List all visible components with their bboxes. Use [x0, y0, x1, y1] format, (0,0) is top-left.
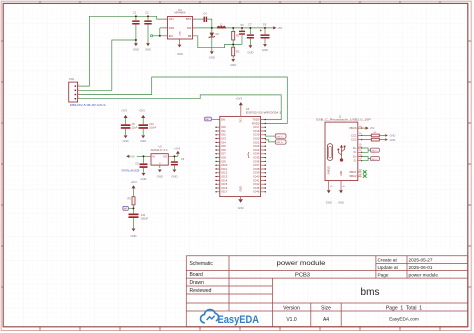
svg-text:EN: EN: [169, 34, 173, 38]
svg-text:Version: Version: [283, 305, 300, 311]
svg-text:3: 3: [78, 93, 79, 95]
svg-text:1: 1: [78, 84, 79, 86]
pins D+/D- pair 1 to net port: [353, 145, 379, 154]
svg-text:A5: A5: [359, 132, 361, 135]
svg-text:SBU2: SBU2: [349, 174, 357, 178]
net port EN at U3: [205, 117, 217, 121]
svg-text:GND: GND: [177, 52, 183, 56]
resistor R2 (feedback bottom): [232, 47, 240, 58]
svg-text:IO17: IO17: [221, 190, 228, 194]
svg-text:DB124V-5.08-4P-GN-S: DB124V-5.08-4P-GN-S: [70, 104, 106, 107]
svg-text:100nF: 100nF: [141, 218, 149, 221]
svg-text:A6: A6: [359, 145, 361, 148]
svg-text:+3V3: +3V3: [138, 109, 145, 113]
svg-text:Size: Size: [321, 305, 331, 311]
svg-text:A4: A4: [323, 317, 329, 323]
wire USB_D- to net port: [265, 135, 275, 137]
SCHEMATIC : power input section: [69, 9, 288, 124]
wire SW node: [197, 27, 273, 29]
svg-text:VIN: VIN: [169, 17, 174, 21]
svg-text:DIM: DIM: [169, 26, 175, 30]
svg-text:EasyEDA: EasyEDA: [218, 314, 260, 326]
USB-C plug glyph: [327, 144, 332, 161]
ground of C3: [171, 170, 177, 179]
wire CN1.1 to VIN rail: [80, 16, 162, 86]
power flag +3V3 at U2 output: [174, 147, 181, 157]
svg-text:A4: A4: [359, 125, 361, 128]
wire CN1.2 to GND of C1: [80, 40, 136, 90]
pin SHIELD to ground: [326, 166, 333, 205]
net port EN (RC node): [123, 206, 135, 210]
svg-text:Page 1 Total 1: Page 1 Total 1: [386, 305, 422, 311]
svg-text:GND: GND: [157, 175, 163, 179]
diode D1 (zener): [209, 29, 220, 52]
capacitor C11: [129, 214, 149, 229]
svg-text:3V3: 3V3: [241, 118, 243, 123]
svg-text:BST: BST: [186, 17, 192, 21]
pin CC1 with resistor R4: [351, 132, 396, 137]
ground of U3: [238, 186, 244, 210]
svg-text:GND: GND: [179, 31, 181, 36]
pins D+/D- pair 2 to net port: [353, 154, 379, 162]
capacitor C7 (output): [247, 24, 254, 45]
net port USB_D+: [275, 140, 286, 144]
capacitor C1: [132, 11, 139, 43]
svg-text:VBUS: VBUS: [349, 126, 357, 130]
ground of C2: [145, 43, 151, 51]
svg-text:B7: B7: [359, 159, 361, 161]
svg-text:+5V: +5V: [130, 155, 135, 159]
svg-text:GND: GND: [341, 170, 343, 175]
USB trident logo: [337, 145, 345, 162]
svg-text:Drawn: Drawn: [190, 280, 205, 286]
connector CN1: [69, 78, 106, 107]
net port USB_D-: [275, 134, 286, 138]
svg-text:USB_C_Receptacle_USB2.0_16P: USB_C_Receptacle_USB2.0_16P: [316, 119, 371, 122]
module U3 ESP32-S3-WROOM-1: [220, 108, 282, 196]
ground of R2: [230, 59, 236, 67]
svg-text:USB_D-: USB_D-: [371, 159, 378, 161]
regulator U2 AMS1117-3.3: [148, 146, 172, 168]
svg-text:4: 4: [78, 97, 79, 99]
junction dots: [143, 155, 145, 157]
wire DIM-EN tie: [160, 28, 163, 36]
svg-text:2025-05-27: 2025-05-27: [409, 258, 433, 263]
svg-text:ESP32-S3-WROOM-1: ESP32-S3-WROOM-1: [246, 112, 282, 115]
ground of C11: [131, 229, 137, 239]
ground of C10: [140, 135, 146, 142]
svg-text:100nF: 100nF: [149, 127, 157, 130]
svg-text:22uF: 22uF: [132, 127, 138, 130]
svg-text:power module: power module: [277, 261, 327, 267]
SCHEMATIC : ESP32 module section: [205, 97, 287, 210]
resistor R1 (feedback top): [232, 28, 240, 47]
svg-text:MP9486A: MP9486A: [175, 12, 186, 15]
svg-text:+3V3: +3V3: [236, 97, 243, 101]
junction dots on VIN rail: [135, 15, 137, 17]
SCHEMATIC : 3V3 regulator section: [121, 109, 185, 239]
svg-text:A1: A1: [343, 185, 345, 188]
pin GND to ground: [338, 170, 345, 204]
svg-text:GND: GND: [238, 206, 244, 210]
svg-text:GND: GND: [230, 63, 236, 67]
net stub EN (to IC1): [151, 35, 163, 37]
svg-text:2: 2: [78, 89, 79, 91]
svg-text:A7: A7: [359, 149, 361, 152]
svg-text:GND: GND: [326, 200, 332, 204]
svg-text:GND: GND: [338, 200, 344, 204]
svg-text:bms: bms: [361, 287, 380, 298]
power flag +3V3 at U3: [236, 97, 243, 123]
pins SBU1/SBU2 no-connect: [349, 169, 366, 178]
svg-text:D-: D-: [354, 159, 357, 163]
wire FB feedback: [197, 36, 242, 48]
U3 right pins: [247, 118, 266, 194]
wire USB_D+ to net port: [265, 140, 275, 142]
svg-text:GND: GND: [209, 55, 215, 59]
svg-text:Board: Board: [190, 272, 204, 278]
svg-text:V1.0: V1.0: [286, 317, 297, 323]
ground of D1: [209, 51, 215, 59]
wire CN1.4 to ESP32 TXD0 (inner loop): [80, 95, 281, 120]
ground of U2: [157, 170, 163, 179]
svg-text:USB_D-: USB_D-: [276, 136, 283, 138]
svg-text:+5V: +5V: [277, 26, 282, 30]
capacitor C6 (feedforward): [239, 24, 245, 44]
svg-text:GND: GND: [131, 234, 137, 238]
wire CN1.3 to ESP32 RXD0 (outer loop): [80, 77, 287, 123]
ground of C1: [133, 43, 139, 51]
inductor L1: [217, 23, 225, 28]
svg-text:GND: GND: [140, 139, 146, 143]
capacitor C5 tantalum input: [121, 156, 147, 172]
capacitor C3 output: [171, 156, 185, 169]
svg-text:B8: B8: [359, 174, 361, 176]
net flag +5V output: [273, 26, 282, 30]
U3 left pins: [215, 118, 227, 194]
svg-text:Update at: Update at: [378, 265, 399, 270]
svg-text:EN: EN: [221, 118, 225, 122]
svg-text:A8: A8: [359, 169, 361, 172]
capacitor C4 (bootstrap): [197, 12, 212, 28]
pin CC2 with resistor R5: [351, 138, 396, 146]
svg-text:power module: power module: [409, 272, 439, 277]
svg-text:FB: FB: [188, 34, 192, 38]
ground of C5: [141, 173, 147, 181]
svg-text:SHIELD: SHIELD: [329, 166, 331, 175]
wire U2 output node: [172, 155, 178, 157]
svg-text:EasyEDA.com: EasyEDA.com: [389, 317, 419, 322]
svg-text:PCB3: PCB3: [295, 272, 310, 278]
junction dots on SW/output: [211, 27, 213, 29]
svg-text:+3V3: +3V3: [121, 109, 128, 113]
svg-text:AMS1117-3.3: AMS1117-3.3: [151, 149, 169, 152]
connector J1 USB_C_Receptacle_USB2.0_16P: [316, 115, 371, 180]
svg-text:S1: S1: [330, 186, 332, 188]
capacitor C2: [144, 11, 151, 43]
svg-text:Page: Page: [378, 272, 389, 277]
svg-text:GND: GND: [390, 138, 396, 142]
svg-text:GND: GND: [390, 134, 396, 138]
svg-text:CC2: CC2: [351, 138, 357, 142]
ground of IC1: [177, 42, 183, 56]
svg-text:+3V3: +3V3: [130, 180, 137, 184]
svg-text:USB_D+: USB_D+: [276, 142, 283, 144]
net flag +5V input: [126, 155, 148, 159]
svg-text:GND: GND: [145, 48, 151, 52]
pin VBUS with +5V flag: [349, 125, 375, 130]
capacitor C8 (output bulk): [260, 24, 270, 44]
resistor R3 EN pull-up: [127, 180, 137, 213]
capacitor C9 decoupling: [121, 109, 138, 136]
svg-text:+3V3: +3V3: [174, 147, 181, 151]
svg-text:GND: GND: [141, 177, 147, 181]
svg-text:VI: VI: [152, 154, 155, 158]
svg-text:IO46: IO46: [253, 190, 260, 194]
svg-text:GND: GND: [171, 175, 177, 179]
ground of C9: [123, 135, 129, 142]
svg-text:2025-06-01: 2025-06-01: [409, 265, 433, 270]
svg-text:GND: GND: [262, 48, 268, 52]
svg-text:GND: GND: [241, 186, 243, 191]
svg-text:USB_D+: USB_D+: [371, 150, 378, 152]
svg-text:TANTALUM-3528: TANTALUM-3528: [121, 170, 140, 173]
svg-text:Reviewed: Reviewed: [190, 288, 212, 294]
svg-text:B6: B6: [359, 154, 361, 156]
svg-text:GND: GND: [123, 139, 129, 143]
svg-text:+5V: +5V: [370, 126, 375, 130]
svg-text:GND: GND: [247, 50, 253, 54]
SCHEMATIC : USB-C section: [316, 115, 396, 204]
svg-text:GND: GND: [133, 48, 139, 52]
EasyEDA logo: [200, 310, 259, 326]
svg-text:Create at: Create at: [378, 258, 398, 263]
capacitor C10 decoupling: [138, 109, 156, 136]
TITLEBLOCK: [186, 256, 468, 327]
title block grid lines: [186, 255, 468, 257]
svg-text:Schematic: Schematic: [190, 261, 214, 267]
ground of C7: [247, 45, 253, 54]
svg-text:SW: SW: [187, 26, 192, 30]
ground of C8: [262, 44, 268, 52]
svg-text:CN1: CN1: [69, 78, 75, 81]
svg-text:R4: R4: [374, 132, 376, 134]
op-amp IC1 MP9486A buck regulator: [162, 9, 196, 42]
